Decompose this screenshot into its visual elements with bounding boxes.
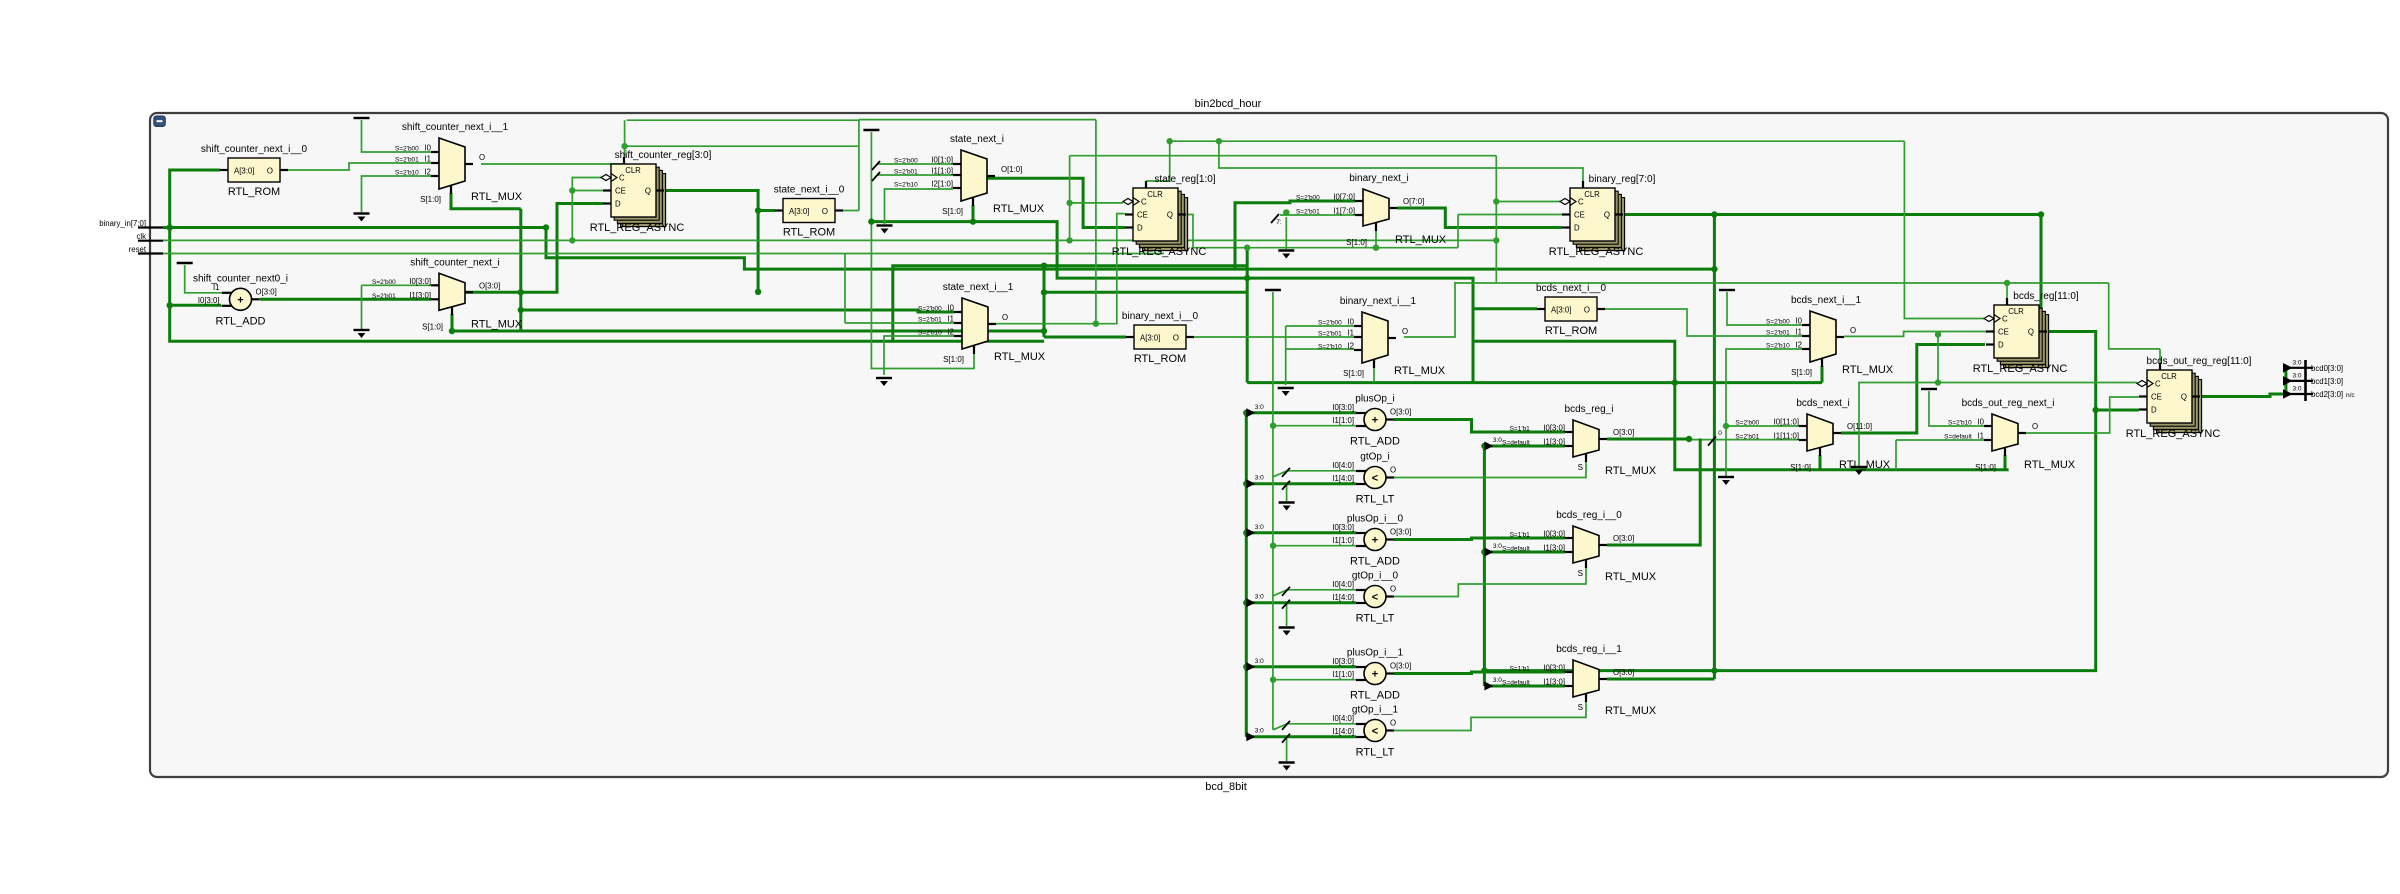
bus rip gtOp_i I1	[1282, 481, 1290, 490]
svg-text:RTL_ADD: RTL_ADD	[1350, 556, 1400, 568]
svg-text:O: O	[1402, 327, 1408, 336]
svg-text:gtOp_i: gtOp_i	[1360, 452, 1389, 463]
svg-text:CLR: CLR	[625, 166, 641, 175]
ground shift mux I0	[354, 330, 370, 338]
mux bcds_reg_i	[1502, 404, 1657, 477]
svg-text:RTL_MUX: RTL_MUX	[1839, 459, 1891, 471]
junction	[1481, 549, 1487, 555]
svg-text:state_reg[1:0]: state_reg[1:0]	[1154, 174, 1215, 185]
svg-text:state_next_i__1: state_next_i__1	[943, 282, 1014, 293]
mux shift_counter_next_i__1	[395, 122, 523, 204]
wire reset rail	[163, 253, 1164, 255]
junction	[449, 328, 455, 334]
wire M1 out to CLR	[481, 163, 625, 165]
svg-text:I1[1:0]: I1[1:0]	[1332, 416, 1354, 425]
svg-text:bcd1[3:0]: bcd1[3:0]	[2311, 377, 2343, 386]
bus rip M2 I0	[872, 161, 880, 170]
register state_reg[1:0]	[1112, 174, 1216, 258]
junction	[1493, 237, 1499, 243]
svg-text:CE: CE	[615, 187, 626, 196]
svg-text:O[3:0]: O[3:0]	[1390, 662, 1411, 671]
wire v1473 down	[1472, 309, 1475, 383]
svg-text:S: S	[1578, 463, 1583, 472]
svg-text:CLR: CLR	[2161, 372, 2177, 381]
wire clk rail	[163, 239, 1496, 241]
ground M6 I0 top	[1719, 289, 1735, 291]
wire state mux S net	[972, 205, 975, 222]
wire M6 out to G4 CE	[1844, 332, 1986, 337]
svg-text:I2: I2	[1347, 342, 1354, 351]
svg-text:3:0: 3:0	[1255, 524, 1264, 531]
bus rip gtOp_i I0	[1282, 468, 1290, 477]
svg-text:RTL_LT: RTL_LT	[1356, 613, 1395, 625]
junction	[518, 289, 524, 295]
svg-text:state_next_i__0: state_next_i__0	[774, 185, 845, 196]
wire M8 out to G5 CE	[2024, 397, 2139, 433]
bus tap	[1484, 437, 1502, 451]
svg-text:shift_counter_next_i: shift_counter_next_i	[410, 257, 500, 268]
mux shift_counter_next_i	[372, 257, 523, 331]
mux binary_next_i	[1296, 173, 1447, 247]
svg-text:CLR: CLR	[1147, 190, 1163, 199]
svg-text:O: O	[1584, 306, 1590, 315]
wire plusOp_i0 out to bcds_reg_i0 I0	[1394, 538, 1565, 540]
junction	[1723, 423, 1729, 429]
bus rip M2 I1	[872, 172, 880, 181]
svg-text:CE: CE	[2151, 393, 2162, 402]
mux state_next_i	[894, 134, 1045, 216]
wire T2 light trunk	[1272, 292, 1274, 730]
svg-text:I1[4:0]: I1[4:0]	[1332, 474, 1354, 483]
svg-text:3:0: 3:0	[1493, 543, 1502, 550]
svg-text:I2[1:0]: I2[1:0]	[931, 180, 953, 189]
svg-text:O: O	[1002, 313, 1008, 322]
svg-text:shift_counter_reg[3:0]: shift_counter_reg[3:0]	[615, 150, 712, 161]
svg-text:I0[3:0]: I0[3:0]	[409, 277, 431, 286]
svg-text:plusOp_i__0: plusOp_i__0	[1347, 514, 1404, 525]
wire bcds_reg_i1 out up	[1607, 678, 1714, 681]
wire binary reg Q rail	[1623, 215, 2041, 342]
svg-text:bcds_reg_i__1: bcds_reg_i__1	[1556, 644, 1622, 655]
junction	[755, 289, 761, 295]
bus tap	[1246, 658, 1264, 672]
wire g1 to mux I0	[362, 120, 432, 152]
wire R1 ROM out to mux I1	[288, 163, 431, 170]
svg-text:plusOp_i__1: plusOp_i__1	[1347, 648, 1404, 659]
svg-text:S=2'b00: S=2'b00	[395, 146, 419, 153]
svg-text:binary_next_i: binary_next_i	[1349, 173, 1408, 184]
svg-text:C: C	[2155, 380, 2161, 389]
ground M8 branch	[1851, 467, 1867, 475]
wire clk branch G1	[572, 178, 601, 241]
svg-text:bcds_next_i: bcds_next_i	[1796, 398, 1849, 409]
ROM shift_counter_next_i__0	[201, 144, 308, 198]
port bcd1[3:0]	[2283, 373, 2343, 387]
svg-text:3:0: 3:0	[1255, 594, 1264, 601]
junction	[2038, 211, 2044, 217]
svg-text:CE: CE	[1574, 211, 1585, 220]
svg-text:S=2'b10: S=2'b10	[1948, 420, 1972, 427]
svg-text:I0[3:0]: I0[3:0]	[1543, 530, 1565, 539]
wire R2 O out	[843, 210, 859, 212]
junction	[868, 218, 874, 224]
wire reg shift Q out	[664, 191, 758, 292]
svg-text:O[1:0]: O[1:0]	[1001, 165, 1022, 174]
wire binary mux S pin	[1375, 231, 1377, 248]
wire gtOp I1 gnd stems	[1286, 484, 1288, 501]
svg-text:I0[3:0]: I0[3:0]	[1543, 424, 1565, 433]
wire G3 CLR feed	[1219, 141, 1583, 181]
svg-text:bcds_reg_i__0: bcds_reg_i__0	[1556, 510, 1622, 521]
wire gtOp_i I1	[1246, 482, 1356, 485]
wire A2 I1	[1273, 425, 1356, 427]
svg-text:RTL_MUX: RTL_MUX	[1394, 365, 1446, 377]
wire binary reg Q to select rail	[1713, 215, 1716, 680]
svg-text:S: S	[1578, 569, 1583, 578]
port bcd2[3:0]	[2283, 386, 2355, 400]
wire M8 I0 gnd-top	[1929, 391, 1984, 426]
wire rail291.7	[1044, 291, 1247, 294]
svg-text:<: <	[1372, 592, 1378, 604]
wire binary_in rail to binary mux I0	[1235, 201, 1355, 269]
svg-text:I1[4:0]: I1[4:0]	[1332, 593, 1354, 602]
adder plusOp_i__1	[1332, 648, 1411, 702]
wire bcds_reg_i I1	[1484, 445, 1565, 448]
svg-text:I1[11:0]: I1[11:0]	[1774, 432, 1799, 441]
wire bcds_reg_i1 I1	[1484, 685, 1565, 688]
svg-text:I0[7:0]: I0[7:0]	[1333, 193, 1355, 202]
wire M5 I0 feed	[1286, 325, 1354, 327]
junction	[1066, 200, 1072, 206]
svg-text:3:0: 3:0	[1255, 404, 1264, 411]
wire rail y146	[625, 145, 859, 147]
wire M3 I2 gnd	[884, 336, 954, 375]
svg-text:CE: CE	[1998, 328, 2009, 337]
ROM bcds_next_i__0	[1536, 283, 1606, 337]
bus tap	[1246, 594, 1264, 608]
wire v1286 M5 I0/I2	[1285, 326, 1287, 385]
ground gtOp_i1 I1	[1279, 763, 1295, 771]
wire v1904 G4 C	[1904, 141, 1984, 318]
svg-text:plusOp_i: plusOp_i	[1355, 394, 1394, 405]
svg-text:I0[3:0]: I0[3:0]	[1332, 403, 1354, 412]
wire bcds_reg_i out merge	[1607, 438, 1689, 441]
wire g9 to M6 I0	[1727, 292, 1802, 325]
svg-text:I1: I1	[424, 155, 431, 164]
wire rail y281.9	[1455, 282, 2109, 284]
svg-text:D: D	[1574, 224, 1580, 233]
svg-text:S=2'b01: S=2'b01	[1735, 434, 1759, 441]
wire binary reg Q loop down	[2040, 340, 2043, 343]
svg-text:S=2'b01: S=2'b01	[372, 293, 396, 300]
svg-text:S=2'b10: S=2'b10	[894, 182, 918, 189]
svg-text:shift_counter_next0_i: shift_counter_next0_i	[193, 273, 288, 284]
svg-text:O[3:0]: O[3:0]	[1613, 534, 1634, 543]
svg-text:3:0: 3:0	[2292, 360, 2301, 367]
svg-text:gtOp_i__1: gtOp_i__1	[1352, 705, 1399, 716]
svg-text:bcd2[3:0]: bcd2[3:0]	[2311, 390, 2343, 399]
svg-text:7:: 7:	[1276, 219, 1282, 226]
wire rail y331	[452, 330, 1044, 333]
junction	[1167, 138, 1173, 144]
comparator gtOp_i	[1332, 452, 1396, 506]
svg-text:3:0: 3:0	[1255, 728, 1264, 735]
svg-text:I1[3:0]: I1[3:0]	[1543, 678, 1565, 687]
junction	[1243, 600, 1249, 606]
svg-text:RTL_MUX: RTL_MUX	[994, 351, 1046, 363]
wire rail y141	[1170, 140, 1905, 142]
wire plusOp_i0 I0	[1246, 531, 1356, 534]
svg-text:S=1'b1: S=1'b1	[1510, 532, 1531, 539]
junction	[755, 207, 761, 213]
junction	[1935, 379, 1941, 385]
svg-text:RTL_REG_ASYNC: RTL_REG_ASYNC	[1973, 363, 2068, 375]
svg-text:S=2'b00: S=2'b00	[894, 158, 918, 165]
junction	[1244, 275, 1250, 281]
svg-text:S=2'b01: S=2'b01	[395, 157, 419, 164]
svg-text:shift_counter_next_i__1: shift_counter_next_i__1	[402, 122, 509, 133]
wire state S rail	[871, 222, 1537, 309]
junction	[1066, 237, 1072, 243]
svg-text:D: D	[1998, 341, 2004, 350]
bus tap	[1246, 404, 1264, 418]
ground gtOp_i I1	[1279, 503, 1295, 511]
svg-text:I0[4:0]: I0[4:0]	[1332, 580, 1354, 589]
svg-text:<: <	[1372, 473, 1378, 485]
svg-text:I0: I0	[424, 144, 431, 153]
svg-text:O: O	[1173, 334, 1179, 343]
wire v1247	[1246, 248, 1249, 383]
junction	[1093, 321, 1099, 327]
svg-text:RTL_LT: RTL_LT	[1356, 494, 1395, 506]
svg-text:3:0: 3:0	[1493, 437, 1502, 444]
svg-text:S=2'b00: S=2'b00	[918, 306, 942, 313]
svg-text:CLR: CLR	[1584, 190, 1600, 199]
svg-text:3:0: 3:0	[2292, 373, 2301, 380]
svg-text:Q: Q	[645, 187, 651, 196]
wire rail shift bus y341	[1473, 341, 1675, 382]
wire G3 CE	[1458, 214, 1562, 216]
wire G1 CLR vertical	[624, 120, 626, 157]
svg-text:S=2'b01: S=2'b01	[1766, 330, 1790, 337]
mux bcds_reg_i__0	[1502, 510, 1657, 583]
wire binary_in rail	[163, 228, 1714, 270]
ground adder I1	[177, 262, 193, 264]
junction	[1672, 379, 1678, 385]
svg-text:A[3:0]: A[3:0]	[1140, 334, 1160, 343]
wire adder out to mux I1	[260, 298, 431, 301]
junction	[1935, 331, 1941, 337]
svg-text:S=2'b00: S=2'b00	[1766, 319, 1790, 326]
junction	[1243, 530, 1249, 536]
svg-text:I1: I1	[947, 315, 954, 324]
wire clk branch G2 vertical	[1069, 156, 1071, 241]
svg-text:RTL_ADD: RTL_ADD	[1350, 690, 1400, 702]
ground M3 I2	[876, 378, 892, 386]
wire rail380.8 to G5 C	[1938, 382, 2137, 384]
wire A6 I1	[1273, 679, 1356, 681]
svg-text:O[3:0]: O[3:0]	[1613, 668, 1634, 677]
bus merge bcds_next I1	[1708, 437, 1716, 446]
svg-text:RTL_MUX: RTL_MUX	[471, 191, 523, 203]
junction	[167, 224, 173, 230]
svg-text:S=2'b00: S=2'b00	[1735, 420, 1759, 427]
svg-text:I1[3:0]: I1[3:0]	[1543, 544, 1565, 553]
wire adder I1 gnd-top	[185, 265, 221, 293]
svg-text:S[1:0]: S[1:0]	[422, 322, 443, 331]
svg-text:Q: Q	[2028, 328, 2034, 337]
svg-text:O[3:0]: O[3:0]	[256, 287, 277, 296]
ground M5 I2	[1278, 388, 1294, 396]
bus rip gtOp_i0 I0	[1282, 587, 1290, 596]
svg-text:RTL_REG_ASYNC: RTL_REG_ASYNC	[590, 222, 685, 234]
svg-text:RTL_MUX: RTL_MUX	[471, 318, 523, 330]
wire M7 I0 from chain	[1726, 425, 1799, 427]
svg-text:RTL_MUX: RTL_MUX	[993, 203, 1045, 215]
svg-text:S=default: S=default	[1944, 434, 1972, 441]
svg-text:RTL_MUX: RTL_MUX	[1842, 364, 1894, 376]
svg-text:A[3:0]: A[3:0]	[1551, 306, 1571, 315]
svg-text:I1[7:0]: I1[7:0]	[1333, 207, 1355, 216]
svg-text:S=2'b01: S=2'b01	[1296, 209, 1320, 216]
wire state_next_i1 out feed: R2 A	[758, 209, 775, 212]
svg-text:shift_counter_next_i__0: shift_counter_next_i__0	[201, 144, 308, 155]
junction	[569, 187, 575, 193]
svg-text:I0[1:0]: I0[1:0]	[931, 156, 953, 165]
wire bcds feedback rail	[1484, 332, 2095, 671]
wire M6 out branch	[1859, 336, 1938, 467]
wire T3 trunk bcds I1	[1483, 446, 1486, 686]
port bcd0[3:0]	[2283, 360, 2343, 374]
svg-text:S[1:0]: S[1:0]	[942, 207, 963, 216]
wire M5 out	[1404, 282, 1455, 337]
svg-text:I0[3:0]: I0[3:0]	[198, 296, 220, 305]
svg-text:I1[1:0]: I1[1:0]	[1332, 670, 1354, 679]
wire M8 S drop	[2004, 455, 2007, 470]
svg-text:S=2'b00: S=2'b00	[372, 279, 396, 286]
svg-text:Q: Q	[1604, 211, 1610, 220]
svg-text:D: D	[2151, 406, 2157, 415]
register bcds_out_reg_reg[11:0]	[2126, 356, 2252, 440]
wire rail y383 select	[1247, 381, 1822, 384]
bus tap	[1246, 524, 1264, 538]
svg-text:I2: I2	[947, 328, 954, 337]
svg-text:S[1:0]: S[1:0]	[1343, 369, 1364, 378]
wire M9 S from gtOp	[1394, 461, 1586, 478]
junction	[1243, 481, 1249, 487]
svg-text:O: O	[822, 207, 828, 216]
svg-text:3:0: 3:0	[1255, 658, 1264, 665]
junction	[621, 143, 627, 149]
wire M2 I0 diag feed	[877, 163, 953, 165]
ROM binary_next_i__0	[1122, 311, 1199, 365]
svg-text:<: <	[1372, 726, 1378, 738]
bus tap	[1484, 677, 1502, 691]
svg-text:bin2bcd_hour: bin2bcd_hour	[1195, 98, 1262, 110]
svg-text:O[3:0]: O[3:0]	[1390, 408, 1411, 417]
wire M8 I1	[1896, 439, 1984, 441]
svg-text:CLR: CLR	[2008, 307, 2024, 316]
svg-text:n/c: n/c	[2346, 392, 2355, 399]
wire binary_in to adder I0	[170, 304, 221, 307]
ground M1 I2	[354, 214, 370, 222]
svg-text:binary_next_i__0: binary_next_i__0	[1122, 311, 1199, 322]
junction	[1481, 443, 1487, 449]
svg-text:O: O	[2032, 422, 2038, 431]
svg-text:RTL_ROM: RTL_ROM	[783, 227, 835, 239]
module frame bin2bcd_hour	[150, 113, 2388, 777]
wire G1 CE branch	[572, 190, 603, 192]
svg-text:+: +	[1372, 535, 1378, 547]
wire M2 I1 diag feed	[877, 174, 953, 176]
junction	[1373, 245, 1379, 251]
wire G4 CLR	[2006, 283, 2008, 305]
wire merged bus to bcds_next I1	[1689, 439, 1799, 441]
ground state bus top	[863, 129, 879, 131]
mux bcds_next_i	[1735, 398, 1890, 472]
wire M4 I1 rip	[1280, 214, 1355, 216]
ground M6 I2 chain	[1718, 477, 1734, 485]
svg-text:S=2'b10: S=2'b10	[1318, 344, 1342, 351]
wire M5 S drop	[1373, 367, 1375, 383]
port clk	[136, 232, 163, 241]
wire trunk T1 plusOp	[1245, 413, 1248, 737]
svg-text:O[11:0]: O[11:0]	[1847, 422, 1872, 431]
svg-text:I1: I1	[1977, 432, 1984, 441]
wire state reg Q	[1186, 215, 1458, 248]
svg-text:S=2'b01: S=2'b01	[918, 317, 942, 324]
svg-text:S[1:0]: S[1:0]	[1346, 238, 1367, 247]
wire M8 I1 drop	[1895, 440, 1897, 470]
junction	[2093, 407, 2099, 413]
register binary_reg[7:0]	[1549, 174, 1656, 258]
wire M11 S from gtOp1	[1394, 701, 1586, 731]
svg-text:RTL_ROM: RTL_ROM	[1545, 325, 1597, 337]
svg-text:gtOp_i__0: gtOp_i__0	[1352, 571, 1399, 582]
wire gtOp_i0 I1	[1246, 601, 1356, 604]
svg-text:S=default: S=default	[1502, 440, 1530, 447]
svg-text:I0: I0	[1347, 318, 1354, 327]
comparator gtOp_i__0	[1332, 571, 1398, 625]
svg-text:3:0: 3:0	[1493, 677, 1502, 684]
svg-text:S=1'b1: S=1'b1	[1510, 666, 1531, 673]
svg-text:binary_reg[7:0]: binary_reg[7:0]	[1589, 174, 1656, 185]
wire A7 I0 diag	[1273, 724, 1356, 730]
svg-text:RTL_MUX: RTL_MUX	[1395, 234, 1447, 246]
svg-text:I0[3:0]: I0[3:0]	[1543, 664, 1565, 673]
port reset	[129, 245, 163, 254]
svg-text:binary_next_i__1: binary_next_i__1	[1340, 296, 1417, 307]
svg-text:O[3:0]: O[3:0]	[479, 281, 500, 290]
svg-text:RTL_ROM: RTL_ROM	[228, 186, 280, 198]
svg-text:+: +	[1372, 669, 1378, 681]
junction	[1481, 667, 1487, 673]
output port collector bar	[2304, 360, 2307, 401]
wire v1095.9 state1 out	[1095, 120, 1097, 324]
ground M8 I0 top	[1921, 388, 1937, 390]
wire bcds_next_i out to bcds reg D	[1841, 345, 1985, 434]
wire binary trunk up to R1	[170, 170, 220, 228]
junction	[1041, 289, 1047, 295]
wire M5 I2 gnd	[1286, 348, 1354, 350]
wire rail y155	[1070, 155, 1497, 157]
svg-text:RTL_ROM: RTL_ROM	[1134, 353, 1186, 365]
junction	[1041, 328, 1047, 334]
svg-text:C: C	[1141, 198, 1147, 207]
svg-text:D: D	[1137, 224, 1143, 233]
wire plusOp_i1 I0	[1246, 665, 1356, 668]
svg-text:bcds_out_reg_reg[11:0]: bcds_out_reg_reg[11:0]	[2147, 356, 2252, 367]
